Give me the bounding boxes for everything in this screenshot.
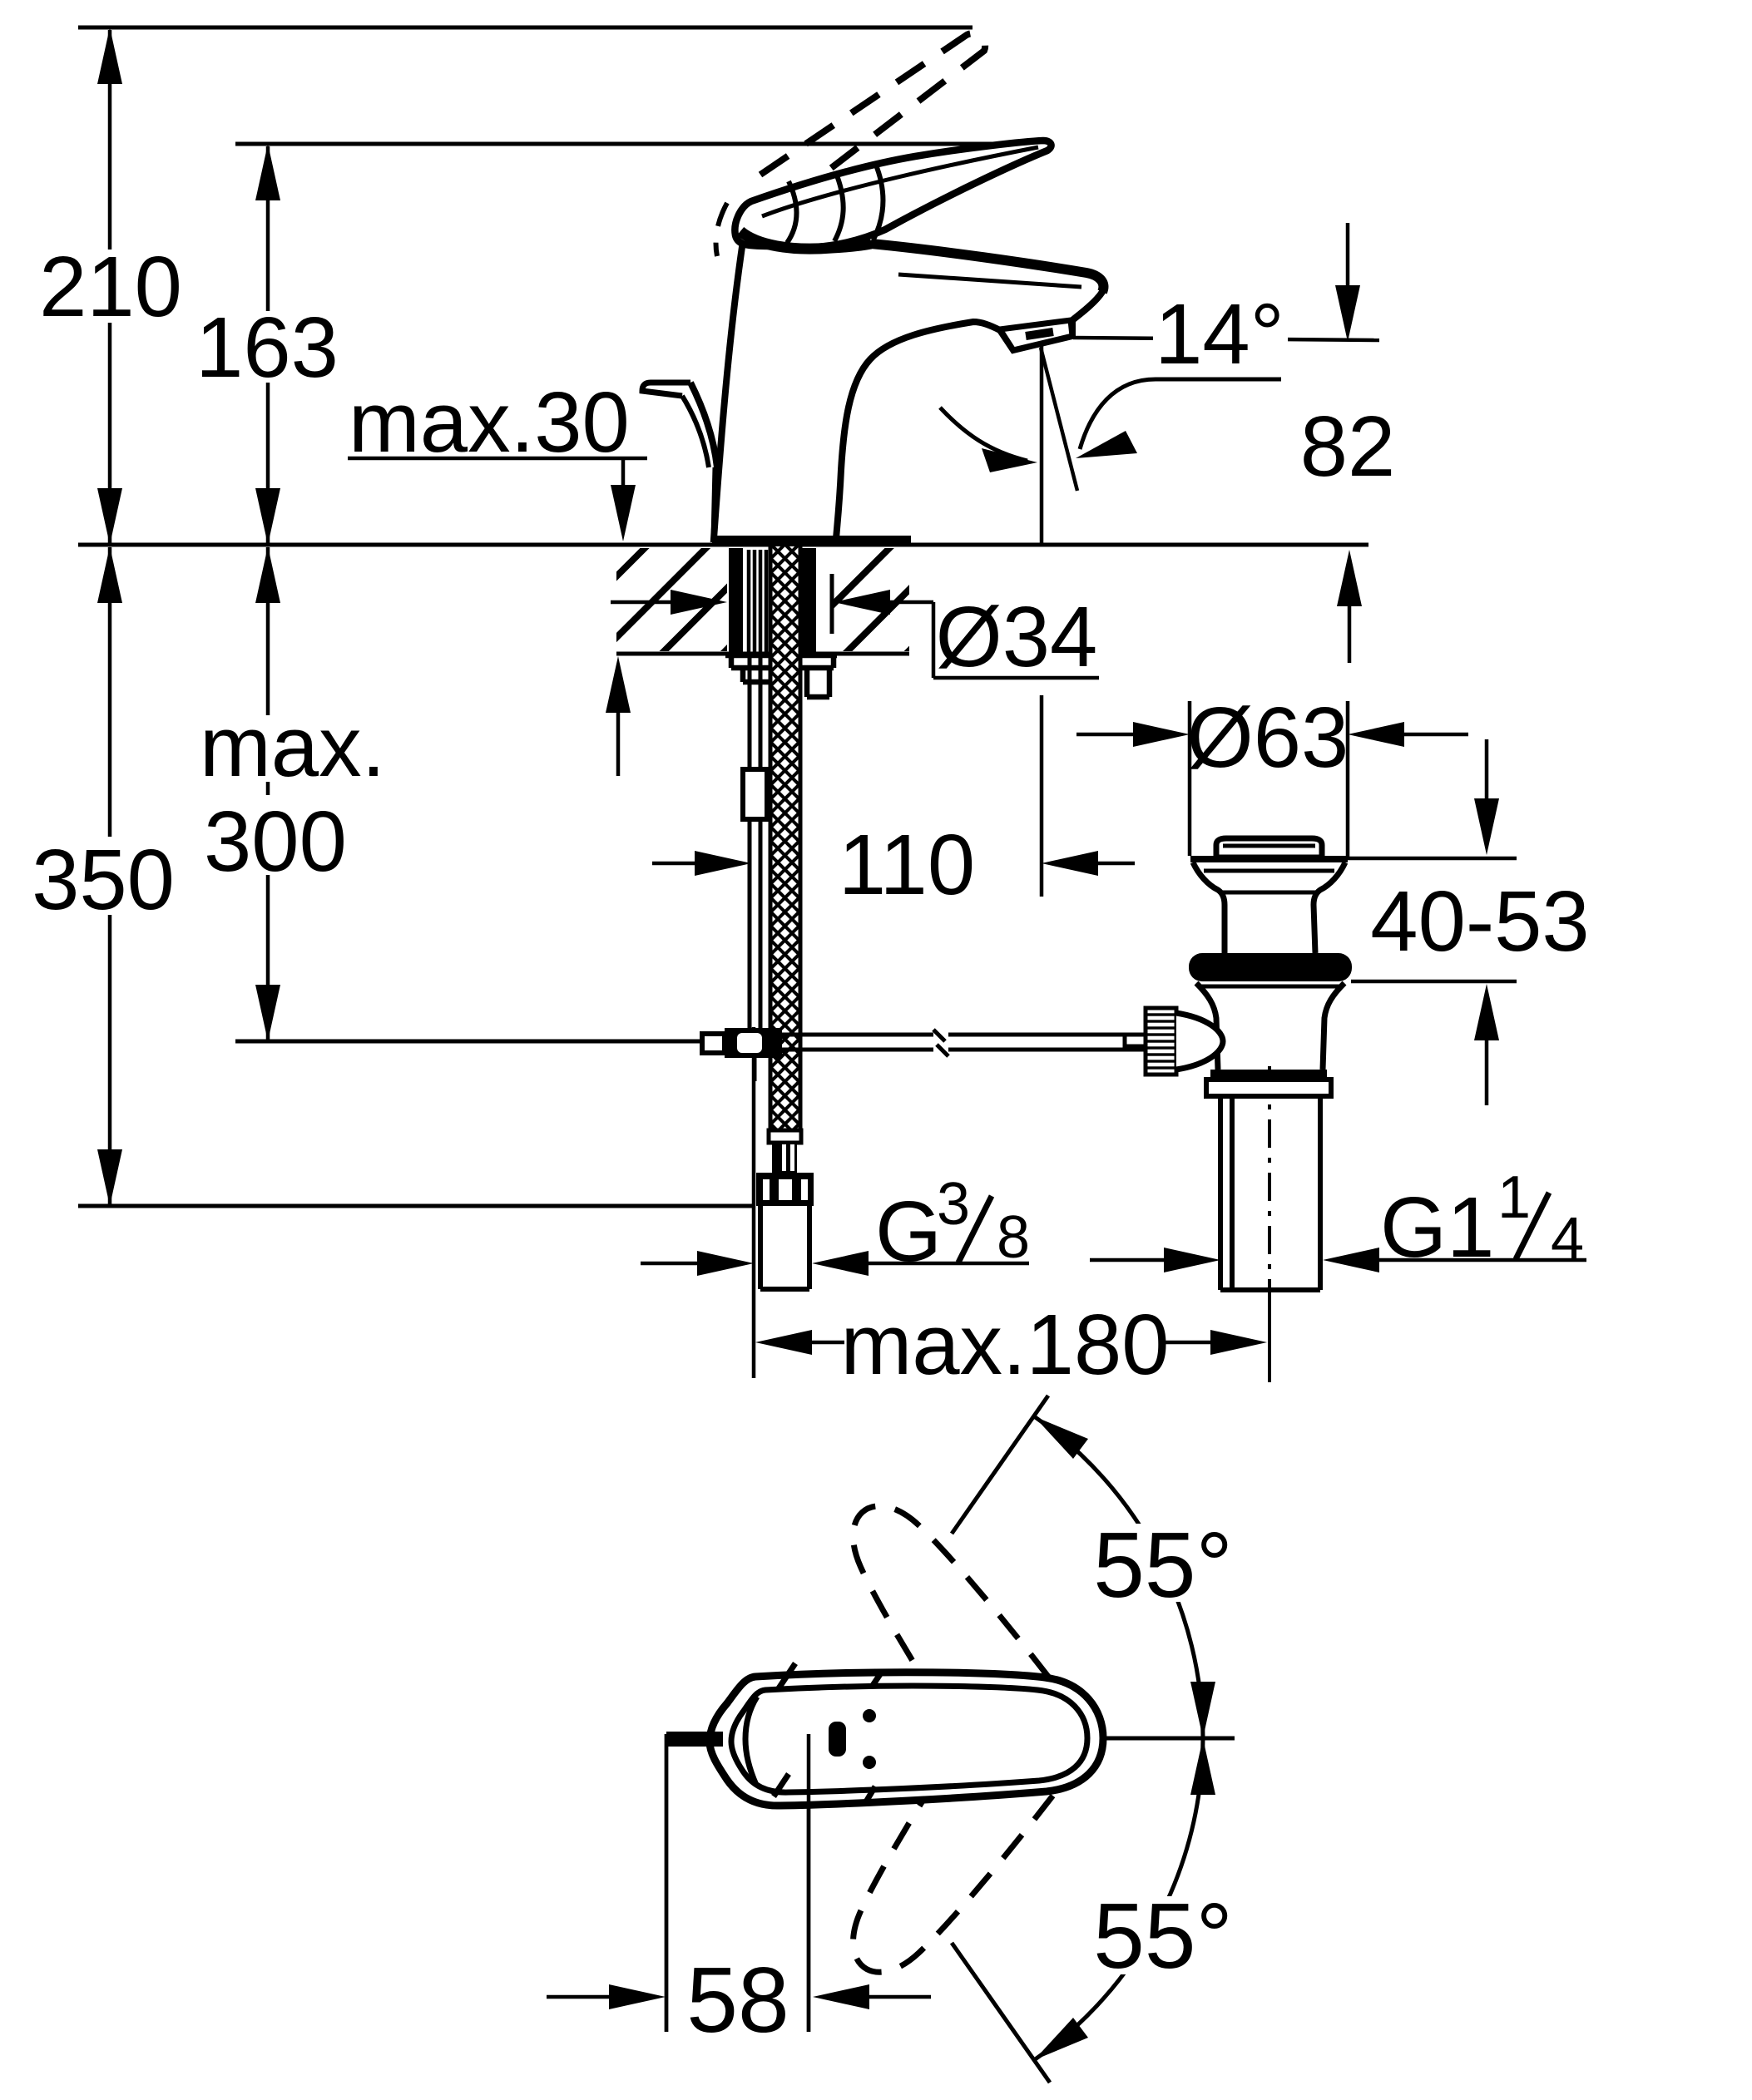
svg-text:163: 163 — [195, 299, 339, 395]
svg-text:110: 110 — [839, 817, 975, 912]
svg-text:max.30: max.30 — [349, 374, 630, 470]
svg-text:1: 1 — [1497, 1164, 1531, 1231]
svg-text:8: 8 — [997, 1204, 1030, 1271]
svg-text:G: G — [875, 1183, 942, 1279]
svg-text:58: 58 — [686, 1949, 789, 2052]
svg-text:350: 350 — [32, 832, 175, 927]
svg-text:max.: max. — [200, 699, 385, 794]
svg-text:3: 3 — [937, 1171, 970, 1238]
svg-text:55°: 55° — [1093, 1885, 1233, 1988]
svg-text:Ø34: Ø34 — [936, 589, 1098, 684]
svg-text:40-53: 40-53 — [1370, 873, 1589, 969]
svg-text:210: 210 — [39, 239, 182, 334]
svg-text:14°: 14° — [1155, 286, 1284, 382]
svg-text:55°: 55° — [1093, 1514, 1233, 1617]
svg-text:82: 82 — [1300, 398, 1396, 494]
svg-text:300: 300 — [204, 793, 347, 889]
svg-text:Ø63: Ø63 — [1187, 689, 1349, 785]
svg-text:4: 4 — [1551, 1206, 1584, 1272]
svg-text:max.180: max.180 — [840, 1297, 1169, 1392]
svg-text:G1: G1 — [1380, 1179, 1494, 1275]
